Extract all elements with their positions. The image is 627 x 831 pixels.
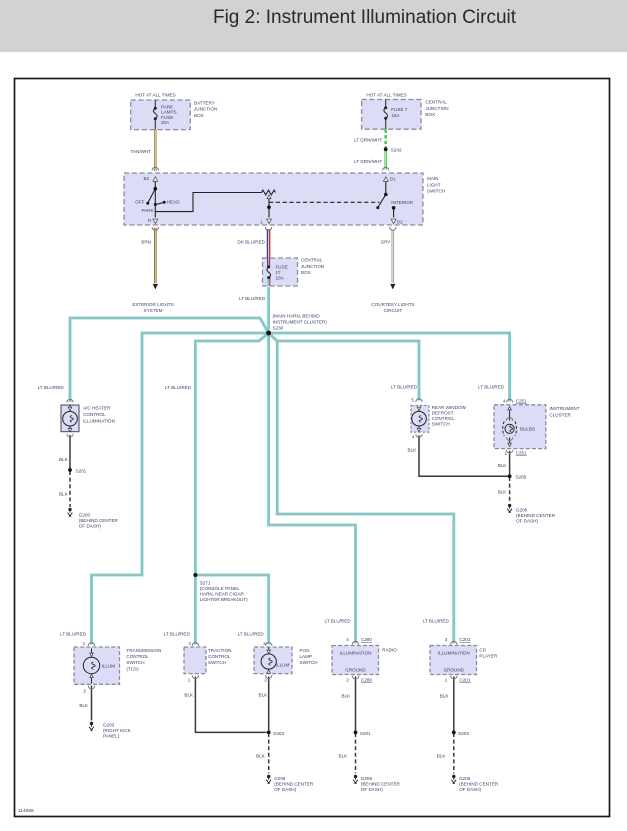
svg-text:GRY: GRY (381, 240, 391, 245)
svg-text:BLK: BLK (259, 692, 269, 697)
svg-text:G203: G203 (103, 723, 115, 728)
svg-text:OFF: OFF (135, 200, 144, 205)
svg-text:CONTROL: CONTROL (208, 654, 231, 659)
svg-text:TRANSMISSION: TRANSMISSION (126, 648, 161, 653)
svg-text:LT BLU/RED: LT BLU/RED (423, 618, 450, 623)
svg-text:(BEHIND CENTER: (BEHIND CENTER (459, 782, 499, 787)
svg-text:PANEL): PANEL) (103, 734, 120, 739)
svg-text:3: 3 (445, 637, 448, 642)
svg-text:SWITCH: SWITCH (208, 660, 226, 665)
svg-text:BLK: BLK (59, 492, 69, 497)
svg-text:C251: C251 (516, 398, 527, 403)
svg-text:(BEHIND CENTER: (BEHIND CENTER (516, 513, 556, 518)
svg-text:CD: CD (479, 648, 486, 653)
svg-text:LT BLU/RED: LT BLU/RED (60, 632, 87, 637)
svg-text:INTERIOR: INTERIOR (391, 200, 414, 205)
svg-text:D1: D1 (390, 176, 396, 181)
svg-text:LT BLU/RED: LT BLU/RED (165, 385, 192, 390)
svg-text:5: 5 (411, 398, 414, 403)
svg-text:(BEHIND CENTER: (BEHIND CENTER (79, 518, 119, 523)
svg-text:CONTROL: CONTROL (83, 412, 106, 417)
svg-text:BLK: BLK (498, 463, 508, 468)
svg-text:DEFROST: DEFROST (432, 411, 454, 416)
svg-text:BOX: BOX (194, 113, 204, 118)
svg-text:INSTRUMENT: INSTRUMENT (549, 406, 579, 411)
svg-text:INSTRUMENT CLUSTER): INSTRUMENT CLUSTER) (273, 319, 328, 324)
svg-text:BOX: BOX (301, 270, 311, 275)
svg-text:BRN: BRN (141, 240, 151, 245)
svg-text:1: 1 (83, 641, 86, 646)
svg-text:D2: D2 (397, 220, 403, 225)
svg-text:(BEHIND CENTER: (BEHIND CENTER (361, 782, 401, 787)
svg-text:BULBS: BULBS (520, 426, 535, 431)
svg-text:COURTESY LIGHTS: COURTESY LIGHTS (371, 302, 414, 307)
svg-text:G206: G206 (274, 776, 286, 781)
svg-text:HOT AT ALL TIMES: HOT AT ALL TIMES (366, 93, 406, 98)
svg-text:BLK: BLK (408, 447, 418, 452)
svg-text:OF DASH): OF DASH) (361, 787, 383, 792)
svg-text:PARK: PARK (142, 208, 155, 213)
svg-text:LT BLU/RED: LT BLU/RED (164, 632, 191, 637)
svg-text:C280: C280 (361, 678, 372, 683)
svg-text:LT BLU/RED: LT BLU/RED (325, 618, 352, 623)
svg-text:CLUSTER: CLUSTER (549, 412, 571, 417)
svg-text:EXTERIOR LIGHTS: EXTERIOR LIGHTS (132, 302, 173, 307)
svg-text:2: 2 (346, 678, 349, 683)
svg-text:S201: S201 (360, 731, 371, 736)
svg-text:3: 3 (263, 641, 266, 646)
svg-text:FOG: FOG (300, 648, 310, 653)
svg-text:BOX: BOX (425, 112, 435, 117)
svg-text:BLK: BLK (440, 693, 450, 698)
svg-text:OF DASH): OF DASH) (79, 523, 101, 528)
svg-text:114068: 114068 (18, 808, 34, 814)
svg-text:SYSTEM: SYSTEM (144, 308, 163, 313)
svg-text:C201: C201 (459, 678, 470, 683)
svg-text:10A: 10A (276, 276, 285, 281)
svg-text:G206: G206 (361, 776, 373, 781)
svg-text:(CONSOLE PANEL: (CONSOLE PANEL (200, 586, 240, 591)
svg-text:(MAIN HARN, BEHIND: (MAIN HARN, BEHIND (273, 313, 321, 318)
svg-text:1: 1 (188, 678, 191, 683)
svg-text:G206: G206 (459, 776, 471, 781)
svg-text:ILLUMINATION: ILLUMINATION (83, 418, 115, 423)
svg-text:GROUND: GROUND (444, 668, 465, 673)
svg-text:LT BLU/RED: LT BLU/RED (391, 385, 418, 390)
svg-text:LT GRN/WHT: LT GRN/WHT (354, 138, 382, 143)
svg-text:30A: 30A (161, 120, 170, 125)
svg-text:CONTROL: CONTROL (126, 654, 149, 659)
svg-text:REAR WINDOW: REAR WINDOW (432, 405, 467, 410)
svg-text:JUNCTION: JUNCTION (425, 106, 448, 111)
svg-text:BLK: BLK (79, 703, 89, 708)
svg-text:4: 4 (346, 637, 349, 642)
svg-text:BLK: BLK (339, 753, 349, 758)
svg-text:SWITCH: SWITCH (300, 660, 318, 665)
svg-text:ILLUM: ILLUM (276, 663, 290, 668)
svg-text:C251: C251 (516, 450, 527, 455)
svg-text:LIGHTER BREAKOUT): LIGHTER BREAKOUT) (200, 597, 248, 602)
svg-text:RADIO: RADIO (382, 648, 397, 653)
svg-text:DK BLU/RED: DK BLU/RED (237, 240, 265, 245)
svg-text:CIRCUIT: CIRCUIT (384, 308, 403, 313)
svg-text:S203: S203 (458, 731, 469, 736)
svg-text:HEAD: HEAD (167, 200, 180, 205)
svg-text:CENTRAL: CENTRAL (425, 100, 447, 105)
svg-text:LIGHT: LIGHT (427, 182, 441, 187)
svg-text:S203: S203 (273, 731, 284, 736)
svg-text:GROUND: GROUND (345, 668, 366, 673)
svg-text:S242: S242 (391, 148, 402, 153)
svg-text:LT BLU/RED: LT BLU/RED (38, 385, 65, 390)
svg-text:TAN/WHT: TAN/WHT (131, 149, 152, 154)
svg-text:B2: B2 (144, 176, 150, 181)
svg-text:LT BLU/RED: LT BLU/RED (238, 632, 265, 637)
svg-text:S230: S230 (273, 326, 284, 331)
svg-text:2: 2 (83, 688, 86, 693)
svg-text:2: 2 (188, 641, 191, 646)
svg-text:FUSE 7: FUSE 7 (391, 107, 408, 112)
svg-text:G206: G206 (516, 507, 528, 512)
svg-text:LT BLU/RED: LT BLU/RED (239, 296, 266, 301)
svg-text:OF DASH): OF DASH) (516, 518, 538, 523)
svg-text:LT GRN/WHT: LT GRN/WHT (354, 159, 382, 164)
svg-text:C280: C280 (361, 637, 372, 642)
svg-text:BLK: BLK (498, 490, 508, 495)
svg-text:4: 4 (503, 398, 506, 403)
svg-text:S206: S206 (516, 474, 527, 479)
svg-text:C201: C201 (459, 637, 470, 642)
svg-text:ILLUM: ILLUM (102, 664, 116, 669)
svg-text:JUNCTION: JUNCTION (194, 107, 217, 112)
svg-text:OF DASH): OF DASH) (459, 787, 481, 792)
svg-text:CONTROL: CONTROL (432, 416, 455, 421)
svg-text:BLK: BLK (184, 692, 194, 697)
svg-text:ILLUMINATION: ILLUMINATION (340, 651, 372, 656)
svg-text:15A: 15A (391, 113, 400, 118)
svg-text:BLK: BLK (342, 693, 352, 698)
svg-text:BATTERY: BATTERY (194, 101, 215, 106)
svg-text:S201: S201 (76, 468, 87, 473)
svg-text:2: 2 (264, 678, 267, 683)
svg-text:PLAYER: PLAYER (479, 654, 497, 659)
svg-text:(BEHIND CENTER: (BEHIND CENTER (274, 782, 314, 787)
svg-text:BLK: BLK (59, 457, 69, 462)
svg-text:1: 1 (260, 220, 263, 225)
svg-text:HOT AT ALL TIMES: HOT AT ALL TIMES (135, 93, 175, 98)
svg-text:A/C HEATER: A/C HEATER (83, 406, 111, 411)
svg-text:HARN, NEAR CIGAR: HARN, NEAR CIGAR (200, 591, 245, 596)
svg-text:OF DASH): OF DASH) (274, 787, 296, 792)
svg-text:BLK: BLK (437, 753, 447, 758)
svg-text:BLK: BLK (256, 753, 266, 758)
svg-text:CENTRAL: CENTRAL (301, 258, 323, 263)
svg-text:SWITCH: SWITCH (427, 189, 445, 194)
svg-text:SWITCH: SWITCH (126, 660, 144, 665)
svg-text:JUNCTION: JUNCTION (301, 264, 324, 269)
svg-text:(TCS): (TCS) (126, 666, 139, 671)
svg-text:S271: S271 (200, 580, 211, 585)
svg-text:SWITCH: SWITCH (432, 422, 450, 427)
svg-text:(RIGHT KICK: (RIGHT KICK (103, 728, 132, 733)
svg-text:LAMP: LAMP (300, 654, 313, 659)
svg-text:1: 1 (445, 678, 448, 683)
svg-text:1: 1 (505, 451, 508, 456)
svg-text:MAIN: MAIN (427, 176, 438, 181)
svg-text:ILLUMINATION: ILLUMINATION (438, 651, 470, 656)
svg-text:LT BLU/RED: LT BLU/RED (478, 385, 505, 390)
svg-text:G200: G200 (79, 512, 91, 517)
svg-text:TRACTION: TRACTION (208, 648, 231, 653)
svg-text:4: 4 (412, 434, 415, 439)
svg-text:FUSE: FUSE (276, 265, 288, 270)
svg-text:17: 17 (276, 270, 282, 275)
